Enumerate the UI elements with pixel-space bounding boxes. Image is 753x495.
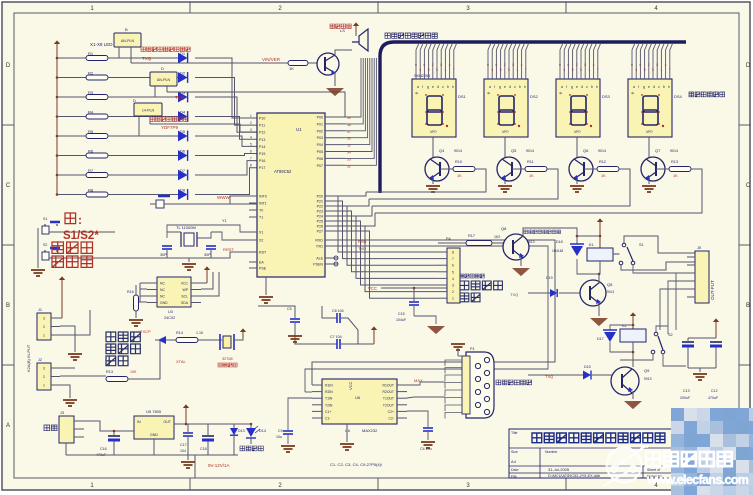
svg-text:C13: C13 (683, 389, 690, 393)
svg-text:a: a (561, 85, 563, 89)
svg-text:S2: S2 (668, 333, 673, 337)
svg-text:U1: U1 (296, 127, 302, 132)
svg-text:c: c (586, 85, 588, 89)
svg-text:h: h (668, 85, 670, 89)
svg-text:OUT-PUT: OUT-PUT (710, 280, 715, 300)
svg-text:R1IN: R1IN (325, 384, 333, 388)
svg-text:C8 104: C8 104 (332, 309, 344, 313)
svg-text:R3: R3 (88, 90, 94, 95)
svg-text:J1: J1 (38, 308, 42, 312)
svg-text:3: 3 (43, 317, 45, 321)
svg-text:R11: R11 (527, 160, 534, 164)
svg-text:TXQ: TXQ (510, 292, 518, 297)
svg-text:C12: C12 (711, 389, 718, 393)
svg-text:R1: R1 (88, 51, 94, 56)
svg-text:3: 3 (563, 68, 565, 72)
svg-text:30P: 30P (160, 253, 167, 257)
svg-text:1: 1 (588, 68, 590, 72)
svg-text:R14: R14 (176, 331, 183, 335)
svg-text:200uF: 200uF (680, 396, 691, 400)
svg-text:1.1K: 1.1K (196, 331, 204, 335)
svg-text:9: 9 (428, 68, 430, 72)
svg-text:104uF: 104uF (396, 318, 407, 322)
svg-text:1: 1 (516, 68, 518, 72)
svg-text:7: 7 (453, 68, 455, 72)
svg-text:2: 2 (452, 290, 454, 294)
svg-text:4: 4 (665, 63, 667, 67)
svg-text:D: D (6, 63, 11, 69)
svg-text:T1IN: T1IN (325, 397, 333, 401)
svg-text:R8: R8 (88, 188, 94, 193)
svg-text:g: g (643, 85, 645, 89)
svg-text:VCC: VCC (348, 381, 353, 390)
svg-text:b: b (519, 85, 521, 89)
svg-text:IN: IN (137, 420, 141, 424)
svg-text:1K: 1K (529, 174, 534, 178)
svg-text:dp: dp (559, 91, 563, 95)
svg-text:2: 2 (648, 63, 650, 67)
svg-text:AN-PLN: AN-PLN (157, 78, 171, 82)
svg-text:P26: P26 (317, 225, 323, 229)
svg-text:32768: 32768 (222, 357, 233, 361)
svg-text:d: d (509, 85, 511, 89)
svg-text:P04: P04 (317, 143, 323, 147)
svg-text:2: 2 (504, 63, 506, 67)
svg-text:9014: 9014 (454, 149, 462, 153)
svg-text:4: 4 (521, 63, 523, 67)
svg-text:S1: S1 (639, 243, 644, 247)
svg-text:9: 9 (644, 68, 646, 72)
svg-text:U5 7805: U5 7805 (146, 409, 162, 414)
svg-text:9014: 9014 (598, 149, 606, 153)
svg-text:2: 2 (43, 375, 45, 379)
svg-text:X1-X8 LED: X1-X8 LED (90, 42, 113, 47)
svg-text:c: c (514, 85, 516, 89)
svg-text:6: 6 (567, 63, 569, 67)
svg-text:U3: U3 (168, 310, 173, 314)
svg-text:C2+: C2+ (388, 410, 394, 414)
svg-text:3: 3 (250, 128, 252, 132)
svg-text:30P: 30P (204, 253, 211, 257)
svg-text:K1: K1 (589, 243, 594, 247)
svg-text:C18: C18 (200, 447, 207, 451)
svg-text:1: 1 (660, 68, 662, 72)
svg-text:MAX232: MAX232 (362, 428, 378, 433)
svg-text:TXD: TXD (316, 245, 324, 249)
svg-text:8: 8 (440, 63, 442, 67)
svg-text:1K: 1K (601, 174, 606, 178)
svg-text:X1: X1 (259, 231, 263, 235)
svg-text:6: 6 (423, 63, 425, 67)
svg-text:P15: P15 (259, 152, 265, 156)
svg-text:R16: R16 (127, 290, 134, 294)
svg-text:PSE: PSE (259, 267, 267, 271)
svg-text:PSEN: PSEN (313, 263, 323, 267)
svg-text:C15: C15 (398, 312, 405, 316)
svg-text:R2IN: R2IN (325, 390, 333, 394)
svg-text:2: 2 (43, 325, 45, 329)
svg-text:SDA: SDA (181, 301, 189, 305)
svg-text:GND: GND (160, 301, 168, 305)
svg-text:1N4148: 1N4148 (552, 249, 563, 253)
svg-text:Number: Number (545, 450, 558, 454)
svg-text:P25: P25 (317, 220, 323, 224)
svg-text:dp: dp (631, 91, 635, 95)
svg-text:NC: NC (160, 288, 165, 292)
svg-text:File: File (511, 475, 517, 479)
svg-text:h: h (596, 85, 598, 89)
svg-text:P02: P02 (317, 129, 323, 133)
svg-text:LS: LS (340, 28, 345, 33)
svg-text:B: B (746, 303, 750, 309)
svg-text:NC: NC (160, 282, 165, 286)
svg-text:9: 9 (500, 68, 502, 72)
svg-text:9013: 9013 (527, 240, 535, 244)
svg-text:0: 0 (415, 63, 417, 67)
svg-text:www.elecfans.com: www.elecfans.com (646, 473, 749, 487)
svg-text:D: D (161, 66, 164, 71)
svg-text:8: 8 (250, 164, 252, 168)
svg-text:R13: R13 (671, 160, 678, 164)
svg-text:Q6: Q6 (583, 148, 589, 153)
svg-text:C7 104: C7 104 (330, 335, 342, 339)
svg-text:9: 9 (572, 68, 574, 72)
svg-text:GND: GND (150, 433, 158, 437)
svg-text:AT89C52: AT89C52 (274, 169, 292, 174)
svg-text:SCL: SCL (181, 295, 188, 299)
svg-text:31-Jul-2005: 31-Jul-2005 (548, 467, 570, 472)
svg-text:d: d (581, 85, 583, 89)
svg-text:8: 8 (656, 63, 658, 67)
svg-text:2: 2 (432, 63, 434, 67)
svg-text:f: f (566, 85, 567, 89)
svg-text:R7: R7 (88, 168, 94, 173)
svg-text:14-PLN: 14-PLN (142, 109, 155, 113)
svg-text:P00: P00 (317, 116, 323, 120)
svg-text:P22: P22 (317, 205, 323, 209)
svg-text:10K: 10K (130, 370, 137, 374)
svg-text:AN-PLN: AN-PLN (121, 39, 135, 43)
svg-text:C1- C2- C3- C4- C9-27P5(4)/: C1- C2- C3- C4- C9-27P5(4)/ (330, 462, 383, 467)
svg-text:9013: 9013 (607, 290, 614, 294)
svg-text:P11: P11 (259, 124, 265, 128)
svg-text:R4: R4 (88, 110, 94, 115)
svg-text:D15: D15 (584, 365, 591, 369)
svg-text:Sheet of: Sheet of (647, 468, 660, 472)
svg-text:P14: P14 (259, 145, 265, 149)
svg-text:INT1: INT1 (259, 202, 267, 206)
svg-text:J2: J2 (38, 358, 42, 362)
svg-text:S1: S1 (43, 217, 47, 221)
svg-text:h: h (524, 85, 526, 89)
svg-text:B: B (6, 303, 10, 309)
svg-text:U6: U6 (355, 395, 361, 400)
svg-text:f: f (494, 85, 495, 89)
svg-text:P05: P05 (317, 150, 323, 154)
svg-text:T1: T1 (259, 216, 263, 220)
svg-text:4: 4 (593, 63, 595, 67)
svg-text:C: C (6, 183, 11, 189)
svg-text:INT0: INT0 (259, 195, 267, 199)
svg-text:3: 3 (43, 367, 45, 371)
svg-text:P16: P16 (259, 159, 265, 163)
svg-text:R12: R12 (599, 160, 606, 164)
svg-text:R1OUT: R1OUT (383, 384, 395, 388)
svg-text:P20: P20 (317, 195, 323, 199)
svg-text:P27: P27 (317, 230, 323, 234)
svg-text:3: 3 (419, 68, 421, 72)
svg-text:b: b (591, 85, 593, 89)
svg-text:7: 7 (597, 68, 599, 72)
svg-text:470uF: 470uF (708, 396, 719, 400)
svg-text:VCC: VCC (181, 282, 189, 286)
svg-text:P1: P1 (470, 347, 475, 351)
svg-text:P12: P12 (259, 131, 265, 135)
svg-text:e: e (432, 85, 434, 89)
svg-text:C5: C5 (287, 307, 292, 311)
svg-text:P01: P01 (317, 122, 323, 126)
svg-text:P10: P10 (259, 117, 265, 121)
svg-text:D13: D13 (238, 429, 245, 433)
svg-text:C17: C17 (180, 443, 187, 447)
svg-text:R2: R2 (88, 71, 94, 76)
svg-text:C: C (746, 183, 751, 189)
svg-text:7: 7 (452, 257, 454, 261)
svg-text:D19: D19 (546, 276, 553, 280)
svg-text:DS4: DS4 (674, 94, 683, 99)
svg-text:Q4: Q4 (439, 148, 445, 153)
svg-text:X2: X2 (259, 239, 263, 243)
svg-text:g: g (571, 85, 573, 89)
svg-text:8: 8 (452, 251, 454, 255)
svg-text:P13: P13 (259, 138, 265, 142)
svg-text:Q9: Q9 (644, 368, 650, 373)
svg-text:TXQ: TXQ (175, 95, 185, 100)
svg-text:P23: P23 (317, 210, 323, 214)
svg-text::: : (78, 213, 82, 227)
svg-text:7: 7 (669, 68, 671, 72)
svg-text:a: a (489, 85, 491, 89)
svg-text:0: 0 (559, 63, 561, 67)
svg-text:RRST: RRST (223, 247, 234, 252)
svg-text:C16: C16 (100, 447, 107, 451)
svg-text:5: 5 (452, 270, 454, 274)
svg-text:B: B (125, 27, 128, 32)
svg-text:D: D (746, 63, 751, 69)
svg-text:P03: P03 (317, 136, 323, 140)
svg-text:ALE: ALE (316, 257, 323, 261)
svg-text:TXCP: TXCP (140, 329, 151, 334)
svg-text:T2OUT: T2OUT (383, 403, 394, 407)
svg-text:f: f (638, 85, 639, 89)
svg-text:1: 1 (444, 68, 446, 72)
svg-text:1: 1 (43, 334, 45, 338)
svg-text:EA: EA (259, 261, 264, 265)
svg-text:3: 3 (491, 68, 493, 72)
svg-text:P06: P06 (317, 157, 323, 161)
svg-text:1: 1 (43, 384, 45, 388)
svg-text:R10: R10 (455, 160, 462, 164)
svg-text:9014: 9014 (526, 149, 534, 153)
svg-text:S2: S2 (43, 243, 47, 247)
svg-text:2: 2 (576, 63, 578, 67)
svg-text:e: e (504, 85, 506, 89)
svg-text:b: b (447, 85, 449, 89)
svg-text:g: g (427, 85, 429, 89)
svg-text:D14: D14 (259, 429, 266, 433)
svg-text:Q8: Q8 (607, 282, 613, 287)
svg-text:e: e (576, 85, 578, 89)
svg-text:P17: P17 (259, 166, 265, 170)
svg-text:C1+: C1+ (325, 410, 331, 414)
svg-text:NC: NC (160, 295, 165, 299)
svg-text:4: 4 (449, 63, 451, 67)
svg-text:1: 1 (250, 114, 252, 118)
svg-text:10u: 10u (276, 435, 282, 439)
svg-text:OUT: OUT (163, 420, 171, 424)
svg-text:P07: P07 (317, 164, 323, 168)
svg-text:Date: Date (511, 468, 518, 472)
svg-text:RXD: RXD (315, 239, 323, 243)
svg-text:e: e (648, 85, 650, 89)
svg-text:g: g (499, 85, 501, 89)
svg-text:S1/S2*: S1/S2* (63, 230, 99, 242)
svg-text:C2-: C2- (389, 417, 394, 421)
svg-text:J3: J3 (60, 411, 64, 415)
svg-text:dp: dp (487, 91, 491, 95)
svg-text:8: 8 (512, 63, 514, 67)
svg-text:1K: 1K (289, 66, 294, 71)
svg-text:R2OUT: R2OUT (383, 390, 395, 394)
svg-text:K2A(B) IN-PUT: K2A(B) IN-PUT (26, 344, 31, 372)
svg-text:3: 3 (635, 68, 637, 72)
svg-text:1K: 1K (457, 174, 462, 178)
svg-text:DS3: DS3 (602, 94, 611, 99)
svg-text:T2IN: T2IN (325, 403, 333, 407)
svg-text:D17: D17 (597, 337, 604, 341)
svg-text:XTAL: XTAL (176, 359, 186, 364)
svg-text:1K2: 1K2 (494, 235, 500, 239)
svg-text:5: 5 (508, 68, 510, 72)
svg-text:R5: R5 (88, 129, 94, 134)
svg-text:4: 4 (250, 135, 252, 139)
svg-text:dp: dp (415, 91, 419, 95)
svg-text:7: 7 (525, 68, 527, 72)
svg-text:Size: Size (511, 450, 518, 454)
svg-text:6: 6 (495, 63, 497, 67)
svg-text:D:\MCU\AT89C52-2Y5-EX.ddb: D:\MCU\AT89C52-2Y5-EX.ddb (548, 474, 600, 478)
svg-text:T0: T0 (259, 209, 263, 213)
svg-text:RST: RST (259, 251, 267, 255)
svg-text:f: f (422, 85, 423, 89)
svg-text:2: 2 (250, 121, 252, 125)
svg-text:5: 5 (652, 68, 654, 72)
svg-text:C1-: C1- (325, 417, 330, 421)
svg-text:a: a (633, 85, 635, 89)
svg-text:D: D (133, 98, 136, 103)
svg-text:d: d (437, 85, 439, 89)
svg-text:b: b (663, 85, 665, 89)
svg-text:VR?: VR? (502, 130, 509, 134)
svg-text:VCC: VCC (368, 286, 377, 291)
svg-text:Q8: Q8 (501, 226, 507, 231)
svg-text:Y1: Y1 (222, 219, 227, 223)
svg-text:R17: R17 (468, 234, 475, 238)
svg-text:A: A (6, 423, 10, 429)
svg-text:YDF7P9: YDF7P9 (161, 125, 179, 130)
svg-text:8: 8 (584, 63, 586, 67)
svg-text:9013: 9013 (644, 377, 652, 381)
svg-text:Q5: Q5 (511, 148, 517, 153)
svg-text:DS2: DS2 (530, 94, 539, 99)
svg-text:VR?: VR? (430, 130, 437, 134)
svg-text:24C02: 24C02 (164, 316, 175, 320)
svg-text:P4: P4 (446, 237, 451, 241)
svg-text:Q7: Q7 (655, 148, 661, 153)
svg-text:VR?: VR? (646, 130, 653, 134)
svg-text:DS1: DS1 (458, 94, 467, 99)
svg-text:TXQ: TXQ (142, 56, 152, 61)
svg-text:TL 11000M: TL 11000M (176, 225, 196, 230)
svg-text:5: 5 (580, 68, 582, 72)
svg-text:6: 6 (250, 150, 252, 154)
svg-text:5: 5 (250, 142, 252, 146)
svg-text:C4 10u: C4 10u (420, 447, 432, 451)
svg-text:c: c (442, 85, 444, 89)
svg-text:WP: WP (183, 288, 189, 292)
svg-text:6: 6 (452, 264, 454, 268)
svg-text:0: 0 (487, 63, 489, 67)
svg-text:T1OUT: T1OUT (383, 397, 394, 401)
svg-text:R6: R6 (88, 149, 94, 154)
svg-text:h: h (452, 85, 454, 89)
svg-text:3: 3 (452, 284, 454, 288)
svg-text:4: 4 (452, 277, 454, 281)
svg-text:P24: P24 (317, 215, 323, 219)
svg-text:VIN/VER: VIN/VER (262, 57, 281, 62)
svg-text:J5: J5 (697, 246, 701, 250)
svg-text:D18: D18 (556, 240, 563, 244)
svg-text:c: c (658, 85, 660, 89)
svg-text:1: 1 (452, 297, 454, 301)
svg-text:P21: P21 (317, 200, 323, 204)
svg-text:0: 0 (631, 63, 633, 67)
svg-text:TXD: TXD (358, 246, 366, 251)
svg-text:C9: C9 (278, 429, 283, 433)
svg-text:9V-12V/1A: 9V-12V/1A (208, 463, 230, 468)
svg-text:VR?: VR? (574, 130, 581, 134)
svg-text:7: 7 (250, 157, 252, 161)
svg-text:a: a (417, 85, 419, 89)
svg-text:WWW: WWW (217, 195, 230, 200)
svg-text:R13: R13 (106, 370, 113, 374)
svg-text:1K: 1K (673, 174, 678, 178)
svg-text:9014: 9014 (670, 149, 678, 153)
svg-text:A4: A4 (511, 459, 517, 464)
svg-text:d: d (653, 85, 655, 89)
svg-text:104: 104 (180, 449, 186, 453)
svg-text:Title: Title (511, 431, 518, 435)
svg-text:6: 6 (639, 63, 641, 67)
svg-text:5: 5 (436, 68, 438, 72)
